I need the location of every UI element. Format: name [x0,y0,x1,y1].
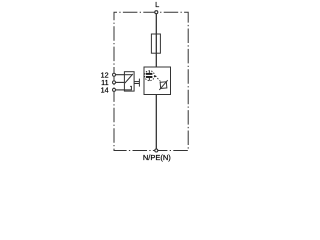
svg-text:14: 14 [101,86,109,95]
mechanical link bar [138,79,140,87]
terminal node N/PE(N) [155,149,158,152]
terminal node 12 [113,73,116,76]
disconnector slash [159,80,169,90]
terminal node L [155,11,158,14]
FM contact box [124,72,134,91]
spark gap (dashed housing circle) [145,71,155,81]
FM contact 14 (NO) hook [124,86,131,90]
terminal node 14 [113,88,116,91]
disconnector square [159,80,169,90]
spark gap electrode top [146,73,153,75]
wire terminal 11 [114,81,124,83]
wire L to SPD box (through fuse) [155,12,157,67]
FM contact lever (common 11) [125,74,133,83]
spark gap electrode bottom [146,76,153,78]
terminal node 11 [113,81,116,84]
SPD main box U1 [144,67,171,95]
FM contact line 12 (NC) [124,74,132,76]
wire SPD box to N/PE [155,95,157,151]
svg-text:N/PE(N): N/PE(N) [143,153,171,162]
svg-text:L: L [155,0,159,9]
enclosure dash-dot border [114,12,188,150]
fuse F1 [151,34,160,53]
wire terminal 14 [114,89,124,91]
dashed status link [157,78,160,81]
spark gap stub top [148,71,150,73]
spark gap stub bottom [148,78,150,81]
wire terminal 12 [114,74,124,76]
trigger arrow [153,75,156,77]
mechanical link double line [135,81,140,83]
